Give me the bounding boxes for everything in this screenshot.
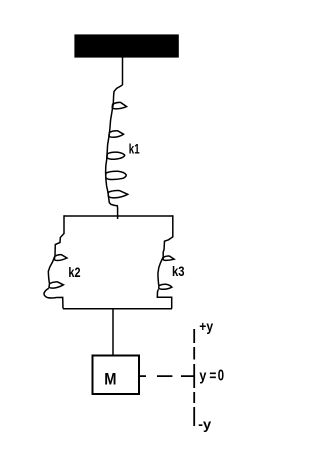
mass M box (93, 356, 140, 395)
frame right drop (163, 215, 173, 256)
spring k1 coil loop 3 (107, 152, 125, 159)
spring k3 coil loop 1 (163, 256, 174, 260)
svg-text:M: M (104, 371, 116, 389)
svg-text:k1: k1 (129, 140, 140, 156)
svg-text:0: 0 (218, 368, 224, 385)
frame left drop (55, 215, 64, 255)
svg-text:k3: k3 (172, 263, 185, 279)
svg-text:-y: -y (198, 416, 211, 432)
spring k3 coil loop 2 (159, 284, 172, 289)
spring k1 main line (106, 85, 123, 219)
fixed support (black block) (74, 34, 178, 57)
rod from frame to mass (112, 309, 114, 355)
spring k1 coil loop 1 (112, 102, 126, 109)
spring k2 main line (44, 256, 63, 309)
svg-text:+y: +y (199, 318, 213, 334)
spring k1 coil loop 2 (109, 131, 124, 138)
dashed y axis (193, 329, 195, 426)
svg-text:y: y (199, 368, 207, 385)
y=0 tick (solid) (193, 364, 195, 388)
spring k2 coil loop 2 (49, 282, 63, 288)
top bar of frame (64, 215, 173, 217)
wire from support to spring k1 (122, 58, 124, 86)
spring k3 main line (157, 257, 171, 309)
svg-text:=: = (209, 368, 216, 385)
spring k1 coil loop 4 (106, 171, 127, 179)
bottom bar of frame (63, 308, 172, 310)
spring k2 coil loop 1 (54, 255, 67, 261)
spring k1 coil loop 5 (108, 191, 128, 198)
dashed link from mass to axis (140, 375, 195, 377)
svg-text:k2: k2 (68, 264, 80, 280)
